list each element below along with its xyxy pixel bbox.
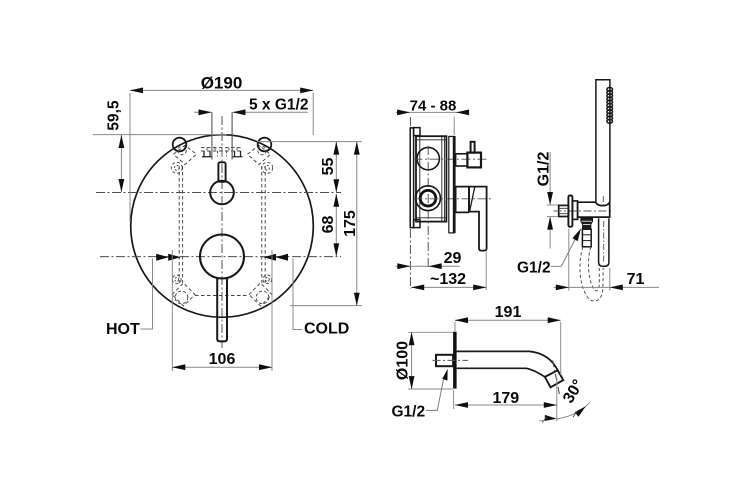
screw axis centerline (409, 117, 411, 289)
diamond bottom-right (249, 283, 272, 306)
holder escutcheon (568, 196, 572, 227)
bottom port centerline (414, 198, 493, 200)
hose connector (582, 229, 591, 247)
dim 191 ext left (454, 322, 456, 331)
diverter head side (467, 153, 481, 168)
svg-text:30°: 30° (560, 377, 587, 407)
lever base side (456, 187, 469, 213)
svg-text:5 x G1/2: 5 x G1/2 (249, 96, 308, 113)
lug small top-right (262, 162, 273, 173)
svg-text:Ø100: Ø100 (394, 341, 411, 380)
svg-text:74 - 88: 74 - 88 (410, 97, 457, 114)
diverter knob (210, 181, 234, 205)
hole bottom-right dashed (256, 291, 269, 304)
ear top-right (258, 138, 272, 152)
arc tick left (542, 417, 546, 423)
lug small bottom-right (263, 275, 272, 284)
top rail dashed (201, 147, 243, 149)
dim 106 ext left (171, 250, 173, 371)
svg-text:COLD: COLD (304, 321, 349, 338)
bottom port thread (420, 190, 436, 206)
svg-text:29: 29 (444, 250, 462, 267)
angle arc (557, 406, 586, 419)
svg-text:Ø190: Ø190 (201, 74, 243, 93)
centerline upper knob (96, 192, 341, 194)
holder collar (572, 201, 577, 220)
svg-text:G1/2: G1/2 (392, 404, 426, 421)
holder arm (578, 202, 610, 217)
ear top-left (173, 138, 187, 152)
svg-text:71: 71 (627, 271, 645, 288)
cartridge axis vertical (427, 146, 429, 268)
dim 106 ext right (271, 250, 273, 371)
wand grip coil (607, 88, 613, 124)
dim G1/2 vertical line (549, 152, 551, 204)
diamond bottom-left (172, 283, 195, 306)
dim G1/2 ext (547, 204, 558, 206)
arc tick right (573, 412, 577, 418)
handle axis (603, 221, 605, 263)
dim 175 ext bottom (290, 305, 362, 307)
dim Ø190 line (130, 89, 313, 91)
arc ext left (539, 419, 544, 422)
hose nut (581, 218, 593, 229)
lever handle (217, 278, 227, 341)
lever block and blade side (469, 187, 487, 251)
plate right edge dashed (261, 166, 263, 283)
lug bottom (414, 220, 420, 228)
svg-text:175: 175 (342, 210, 359, 237)
arc arrowhead right (575, 406, 586, 417)
wand axis (602, 196, 604, 206)
dim 74-88 line (396, 111, 465, 113)
escutcheon circle (131, 135, 314, 318)
dim 179 ext left (453, 390, 455, 409)
cartridge knob (200, 235, 244, 279)
hole top-left dashed (178, 146, 187, 155)
diverter stem (218, 162, 225, 182)
hot flow arrows (168, 254, 180, 261)
dim 59,5 ext top (93, 134, 227, 136)
svg-text:55: 55 (320, 158, 337, 176)
svg-text:179: 179 (492, 390, 519, 407)
lug small bottom-left (172, 275, 181, 284)
lug small top-left (171, 162, 182, 173)
wall stub (559, 205, 569, 216)
dim 191 ext right (560, 322, 562, 375)
spout stub (436, 355, 453, 366)
dim 132 ext right (485, 252, 487, 290)
bottom connector dashed (195, 295, 249, 297)
handle lower (599, 218, 609, 266)
HOT leader (141, 259, 153, 330)
rail foot left (202, 151, 212, 157)
lug top (414, 128, 420, 136)
G1/2 spout leader (426, 379, 444, 411)
hose loop (580, 247, 603, 301)
svg-text:68: 68 (320, 216, 337, 234)
dim 29 line (396, 265, 460, 267)
svg-text:~132: ~132 (430, 271, 466, 288)
G1/2 hose leader (551, 237, 577, 266)
dim Ø190 ext left (129, 93, 131, 222)
svg-text:191: 191 (495, 304, 522, 321)
body inner lines (416, 136, 446, 221)
centerline cartridge (100, 256, 341, 258)
lever block diagonal (470, 187, 475, 212)
dim 132 line (411, 286, 486, 288)
aerator tip (545, 370, 563, 387)
svg-text:59,5: 59,5 (106, 100, 123, 131)
dim 59,5 line (120, 135, 122, 192)
svg-text:106: 106 (209, 351, 236, 368)
spout tube top (457, 351, 558, 370)
svg-text:HOT: HOT (106, 321, 140, 338)
dim 55 ext top (257, 141, 362, 143)
rail hangers (218, 151, 227, 157)
angle vertical reference (556, 379, 558, 422)
wall plate (448, 136, 450, 233)
diamond top-right (248, 145, 271, 164)
plate left edge dashed (178, 166, 180, 283)
dim Ø100 ext (408, 331, 453, 333)
dim 71 ext left (568, 229, 570, 291)
spout axis (433, 359, 469, 361)
shower wand (596, 80, 610, 202)
wall section (453, 332, 457, 389)
stub inner lines (559, 208, 569, 213)
diamond top-left (174, 145, 197, 164)
bottom port circle (416, 186, 441, 211)
dim 175 line (356, 142, 358, 306)
stub centerline (554, 210, 612, 212)
dim Ø100 line (411, 332, 413, 389)
hole top-right dashed (258, 146, 267, 155)
dim 55 line (335, 142, 337, 192)
top port circle (417, 147, 439, 169)
dim 68 line (335, 194, 337, 256)
dim 71 ext right (609, 268, 611, 291)
dim 191 line (455, 319, 561, 321)
valve body (416, 136, 446, 221)
dim 106 line (172, 366, 272, 368)
svg-text:G1/2: G1/2 (535, 152, 552, 187)
spout tube bottom (457, 368, 545, 377)
arc ext right (586, 402, 590, 406)
dim 74-88 ext right (453, 117, 455, 136)
dim 5xG1/2 arrows (194, 111, 212, 113)
rail foot right (233, 151, 243, 157)
cold flow arrows (264, 254, 276, 261)
outlet axis (553, 361, 560, 395)
dim Ø190 ext right (312, 93, 314, 135)
dim 71 line (554, 286, 660, 288)
dim 179 line (455, 404, 557, 406)
diverter stem side (456, 154, 468, 166)
svg-text:G1/2: G1/2 (517, 260, 551, 277)
supply pipe lines (211, 112, 213, 159)
mounting bar (410, 128, 413, 228)
diverter pin (471, 142, 475, 153)
COLD leader (293, 259, 303, 330)
top port centerline (414, 158, 488, 160)
arc arrowhead left (545, 415, 557, 421)
hole bottom-left dashed (175, 291, 188, 304)
centerline vertical (221, 116, 223, 348)
